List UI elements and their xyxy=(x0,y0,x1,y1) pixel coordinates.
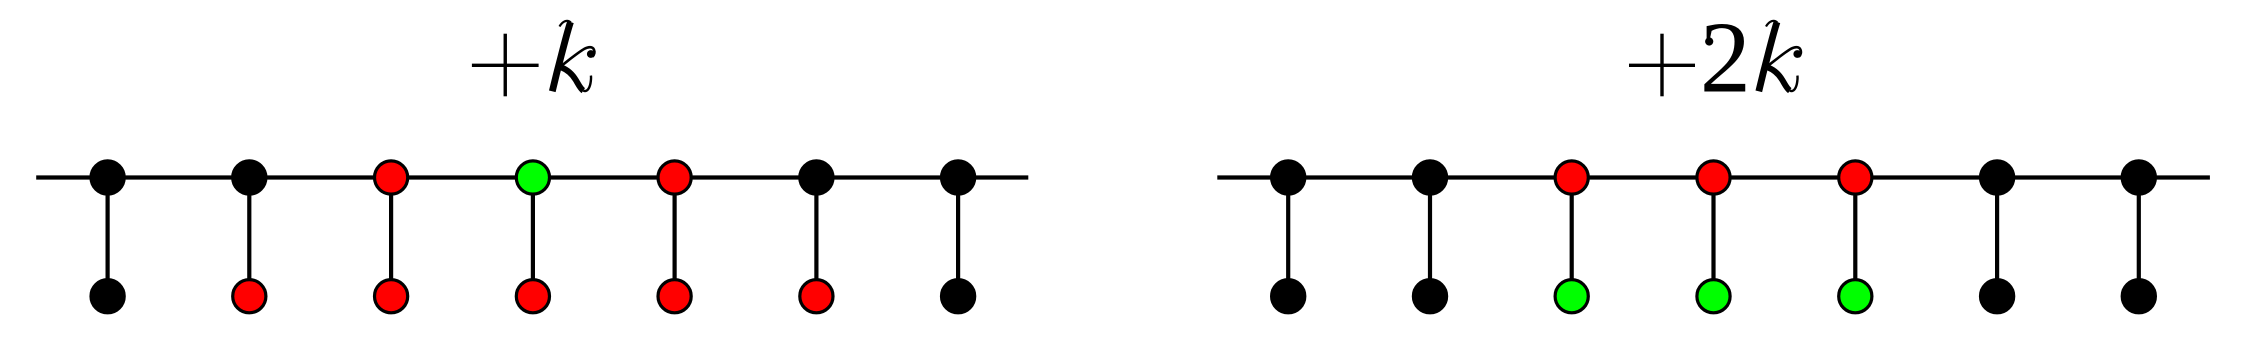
node R4 top (red) xyxy=(1697,161,1730,194)
node R5 top (red) xyxy=(1839,161,1872,194)
wire bond R1 xyxy=(1286,178,1290,297)
wire bond L7 xyxy=(956,178,960,297)
wire bond L3 xyxy=(389,178,393,297)
wire bond L5 xyxy=(672,178,676,297)
wire bond L1 xyxy=(105,178,109,297)
wire bond R7 xyxy=(2137,178,2141,297)
wire bond R4 xyxy=(1711,178,1715,297)
label +2k : plus sign (drawn) xyxy=(1629,34,1695,97)
node R5 bottom (green) xyxy=(1839,280,1872,313)
node L4 bottom (red) xyxy=(516,280,549,313)
node R7 top (black) xyxy=(2122,161,2155,194)
right chain: horizontal wire xyxy=(1217,175,2210,179)
left chain vertical bonds xyxy=(108,178,959,297)
node L3 top (red) xyxy=(375,161,408,194)
wire bond R6 xyxy=(1995,178,1999,297)
node L5 top (red) xyxy=(658,161,691,194)
right chain vertical bonds xyxy=(1288,178,2139,297)
node R3 bottom (green) xyxy=(1555,280,1588,313)
node L3 bottom (red) xyxy=(375,280,408,313)
node R4 bottom (green) xyxy=(1697,280,1730,313)
wire bond R5 xyxy=(1853,178,1857,297)
node L2 bottom (red) xyxy=(233,280,266,313)
node R2 bottom (black) xyxy=(1413,280,1446,313)
wire bond L6 xyxy=(814,178,818,297)
wire bond L4 xyxy=(531,178,535,297)
node L2 top (black) xyxy=(233,161,266,194)
node R1 bottom (black) xyxy=(1272,280,1305,313)
node L7 top (black) xyxy=(942,161,975,194)
node L6 bottom (red) xyxy=(800,280,833,313)
node R6 top (black) xyxy=(1981,161,2014,194)
node L5 bottom (red) xyxy=(658,280,691,313)
right chain top nodes xyxy=(1272,161,2156,194)
label +2k : digit 2 ball terminal xyxy=(1705,37,1713,45)
node R6 bottom (black) xyxy=(1981,280,2014,313)
node L6 top (black) xyxy=(800,161,833,194)
node R7 bottom (black) xyxy=(2122,280,2155,313)
left chain top nodes xyxy=(91,161,975,194)
label +k : letter k (CM italic style) xyxy=(552,21,594,91)
wire bond L2 xyxy=(247,178,251,297)
wire bond R2 xyxy=(1428,178,1432,297)
node L1 top (black) xyxy=(91,161,124,194)
left chain bottom nodes xyxy=(91,280,975,313)
svg-text:2: 2 xyxy=(1700,2,1751,115)
node R2 top (black) xyxy=(1413,161,1446,194)
node R3 top (red) xyxy=(1555,161,1588,194)
node L4 top (green) xyxy=(516,161,549,194)
right chain bottom nodes xyxy=(1272,280,2156,313)
label +k : plus sign (drawn) xyxy=(472,34,539,97)
wire bond R3 xyxy=(1570,178,1574,297)
node R1 top (black) xyxy=(1272,161,1305,194)
label +2k : letter k (CM italic style) xyxy=(1759,21,1801,91)
node L1 bottom (black) xyxy=(91,280,124,313)
left chain: horizontal wire xyxy=(36,175,1028,179)
node L7 bottom (black) xyxy=(942,280,975,313)
